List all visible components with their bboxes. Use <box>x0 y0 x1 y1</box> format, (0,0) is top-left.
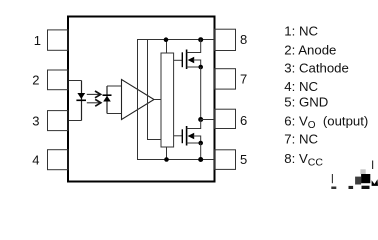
photodiode PD1 cathode bar <box>103 94 112 96</box>
junction dot Q1 source <box>198 65 203 70</box>
pin 7 box <box>215 69 236 89</box>
logo fragment vertical tick left <box>331 174 333 183</box>
transistor Q1 body arrow <box>188 57 195 63</box>
logo fragment bottom glyph 1 <box>331 187 336 190</box>
svg-text:2: 2 <box>32 73 39 88</box>
svg-text:7: 7 <box>240 72 247 87</box>
transistor Q2 drain lead <box>187 120 201 129</box>
logo fragment light patch <box>360 169 365 174</box>
transistor Q2 source lead <box>187 142 201 144</box>
pin 2 box <box>48 70 69 90</box>
logo fragment bottom glyph 2 <box>349 186 354 189</box>
transistor Q2 gate lead <box>174 135 183 137</box>
svg-text:5: 5 <box>240 152 247 167</box>
logo fragment black square <box>361 174 370 183</box>
photodiode PD1 vertical wire <box>106 86 108 114</box>
logo fragment gray square <box>355 177 361 185</box>
logo fragment M zigzag <box>372 179 378 186</box>
photodiode PD1 bottom wire <box>107 113 122 115</box>
wire output node to pin 6 <box>201 119 215 121</box>
wire pin2 to LED anode <box>69 80 82 82</box>
wire bottom rail <box>137 159 215 161</box>
driver block <box>161 53 174 147</box>
junction dot output node <box>198 117 203 122</box>
wire Vcc feed to driver block <box>148 40 162 140</box>
transistor Q1 gate bar <box>181 52 183 67</box>
op-amp A1 triangle <box>122 80 155 120</box>
photodiode PD1 triangle <box>103 96 111 102</box>
transistor Q1 source lead <box>187 66 201 68</box>
svg-text:5: GND: 5: GND <box>284 95 328 110</box>
transistor Q2 body lead <box>193 136 201 143</box>
junction dot bottom stub <box>164 157 169 162</box>
IC package outline U1 <box>68 17 215 182</box>
svg-text:6: VO (output): 6: VO (output) <box>284 114 368 131</box>
svg-text:1: NC: 1: NC <box>284 24 318 39</box>
pin 4 box <box>48 150 69 170</box>
transistor Q1 channel bar <box>186 50 188 70</box>
wire amp output to driver block <box>154 99 161 101</box>
wire top rail <box>137 39 215 41</box>
logo fragment vertical tick right <box>372 161 374 170</box>
pin 6 box <box>215 109 236 128</box>
transistor Q2 gate bar <box>181 129 183 143</box>
transistor Q1 drain lead <box>187 40 201 53</box>
svg-text:3: 3 <box>32 114 39 129</box>
svg-text:6: 6 <box>240 113 247 128</box>
photodiode PD1 top wire <box>107 85 122 87</box>
pin 8 box <box>215 29 236 50</box>
svg-text:7: NC: 7: NC <box>284 132 318 147</box>
wire pin3 to LED cathode <box>69 120 82 122</box>
transistor Q2 body arrow <box>188 133 195 139</box>
svg-text:3: Cathode: 3: Cathode <box>284 61 349 76</box>
svg-text:8: 8 <box>240 32 247 47</box>
junction dot top rail M1 drain <box>198 37 203 42</box>
transistor Q2 channel bar <box>186 126 188 146</box>
LED D1 triangle <box>77 93 85 99</box>
LED D1 cathode bar <box>76 99 86 101</box>
svg-text:4: 4 <box>32 153 39 168</box>
wire Q2 source to bottom rail <box>200 143 202 160</box>
junction dot bottom rail <box>198 157 203 162</box>
svg-text:8: VCC: 8: VCC <box>284 151 323 168</box>
svg-text:2: Anode: 2: Anode <box>284 43 336 58</box>
svg-text:4: NC: 4: NC <box>284 79 318 94</box>
junction dot Q2 source <box>198 141 203 146</box>
transistor Q1 body lead <box>193 60 201 67</box>
pin 3 box <box>48 111 69 131</box>
light arrow 1 <box>87 93 99 95</box>
transistor Q1 gate lead <box>174 59 183 61</box>
wire driver block bottom stub <box>166 147 168 160</box>
junction dot top stub <box>164 37 169 42</box>
pin 5 box <box>215 150 236 170</box>
wire driver block top stub <box>166 40 168 54</box>
wire left vertical rail <box>137 40 139 160</box>
light arrow 2 <box>87 102 99 104</box>
wire Q1 source to output node <box>200 67 202 120</box>
svg-text:1: 1 <box>34 33 41 48</box>
pin 1 box <box>48 30 69 50</box>
LED D1 vertical wire <box>81 81 83 121</box>
logo fragment bottom glyph 3 <box>362 186 370 189</box>
